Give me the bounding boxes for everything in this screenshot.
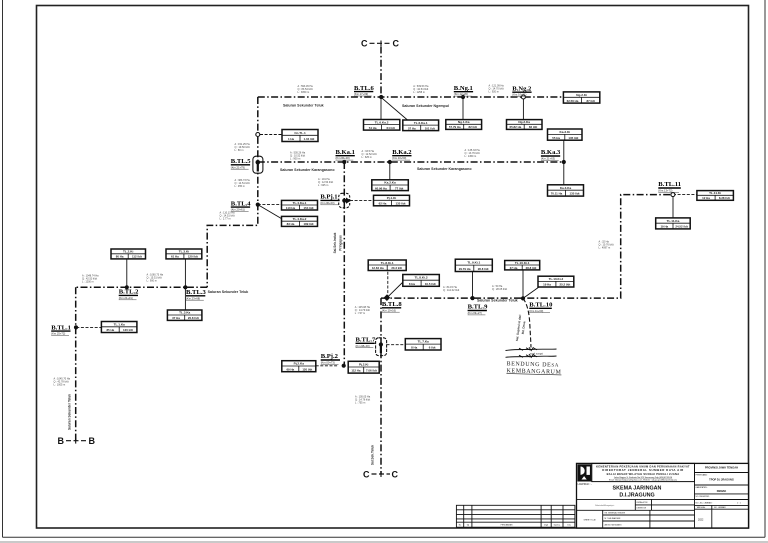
- svg-text:Ka.3.Ka: Ka.3.Ka: [560, 186, 572, 190]
- label B.Ka.3: [541, 149, 561, 160]
- label B.Pj.1: [320, 194, 339, 205]
- wire saluran sekunder Karangasono (line 2): [258, 161, 564, 163]
- svg-text:112 Ha: 112 Ha: [351, 369, 361, 373]
- svg-text:NO. JDL. LEMBAR :: NO. JDL. LEMBAR :: [696, 501, 714, 504]
- wire saluran Teluk vertical to C-C bottom: [380, 298, 382, 474]
- node B.Ka.2: [388, 160, 392, 164]
- svg-text:61 Ha: 61 Ha: [171, 255, 179, 259]
- annotation branch B.TL.5-B.TL.4: [235, 179, 251, 188]
- box tl11ka: [656, 218, 691, 229]
- svg-text:Q : 28.05 lt/dt: Q : 28.05 lt/dt: [492, 288, 507, 291]
- svg-text:Saluran Sekunder Karangasono: Saluran Sekunder Karangasono: [280, 168, 335, 172]
- svg-text:B.Pj.1: B.Pj.1: [320, 194, 337, 201]
- connector B.Pj.1 to Pj.1.Ki: [350, 200, 374, 202]
- wire saluran sekunder Teluk (line 3): [76, 286, 208, 288]
- svg-text:37 Ha: 37 Ha: [172, 316, 180, 320]
- svg-text:Pj.2.Ka: Pj.2.Ka: [294, 362, 305, 366]
- node Cn.TL.1: [256, 133, 260, 137]
- connector B.Ka.3 up to Ka.3.Ki: [563, 140, 565, 162]
- svg-text:B.TL.7: B.TL.7: [356, 337, 376, 344]
- svg-text:8 Ha: 8 Ha: [409, 282, 415, 286]
- svg-text:B.Ka.1: B.Ka.1: [336, 149, 355, 156]
- connector B.TL.4 diagonal to TL.4.Ka.2: [258, 205, 283, 220]
- svg-text:TL.6.Ka.2: TL.6.Ka.2: [375, 120, 389, 124]
- svg-text:85 Ha: 85 Ha: [106, 328, 114, 332]
- svg-text:TL.1.Ka: TL.1.Ka: [114, 323, 125, 327]
- svg-text:L : 2.77 m: L : 2.77 m: [220, 218, 231, 221]
- svg-text:101 l/dt: 101 l/dt: [425, 126, 435, 130]
- label B.TL.1: [51, 324, 71, 335]
- svg-text:TL.4.Ka.1: TL.4.Ka.1: [293, 201, 307, 205]
- node B.TL.3: [183, 285, 187, 289]
- svg-text:L : 80 m: L : 80 m: [235, 149, 244, 152]
- svg-text:M.T KALIMANTAN: M.T KALIMANTAN: [605, 517, 621, 520]
- svg-text:L : 900 m: L : 900 m: [290, 158, 300, 161]
- annotation line1 B.Ng.1-B.Ng.2: [489, 85, 505, 94]
- svg-text:20.8 l/dt: 20.8 l/dt: [188, 316, 199, 320]
- svg-text:Digb: Digb: [544, 524, 548, 526]
- svg-text:L : 4097 m: L : 4097 m: [599, 247, 611, 250]
- svg-text:Dstj: Dstj: [567, 523, 571, 526]
- node B.TL.7: [379, 342, 383, 346]
- svg-text:L : 900 m: L : 900 m: [147, 279, 157, 282]
- node B.TL.11: [671, 193, 675, 197]
- svg-text:8 Ha: 8 Ha: [411, 346, 417, 350]
- svg-text:(Km.10+61): (Km.10+61): [512, 93, 526, 97]
- svg-text:TL.11.Ki: TL.11.Ki: [709, 191, 721, 195]
- svg-text:(Km.10+50): (Km.10+50): [392, 156, 406, 160]
- svg-text:8.28 l/dt: 8.28 l/dt: [719, 196, 730, 200]
- box tl3ki: [166, 249, 202, 259]
- connector B.Pj.2 to Pj.2.Ka: [316, 365, 339, 367]
- svg-text:2022: 2022: [698, 519, 704, 522]
- svg-text:(Km.00+73): (Km.00+73): [321, 361, 335, 365]
- svg-text:55 Ha: 55 Ha: [552, 136, 560, 140]
- box tl4ka2: [282, 216, 318, 226]
- title block main frame: [577, 463, 749, 528]
- svg-text:57 Ha: 57 Ha: [408, 126, 416, 130]
- box tl6ka2: [364, 120, 400, 131]
- box tl6ka1: [403, 120, 439, 131]
- label B.TL.11: [658, 181, 681, 192]
- label rotated suplesi dari Bd. Desa: [515, 314, 526, 341]
- svg-text:TL.2.Ki: TL.2.Ki: [123, 250, 133, 254]
- svg-text:Cn.TL.1: Cn.TL.1: [294, 131, 306, 135]
- svg-text:Ng.2.Ki: Ng.2.Ki: [576, 93, 587, 97]
- box tl3ka: [167, 310, 202, 320]
- svg-text:135 l/dt: 135 l/dt: [396, 202, 406, 206]
- box pj2ki: [348, 361, 379, 373]
- title block signature rows: [577, 499, 749, 510]
- svg-text:Saluran Sekunder Teluk: Saluran Sekunder Teluk: [68, 394, 72, 430]
- svg-text:anak sungai: anak sungai: [530, 352, 543, 355]
- box tl10ki2: [538, 276, 574, 287]
- svg-text:TL.11.Ka: TL.11.Ka: [667, 219, 680, 223]
- annotation below B.TL.8: [355, 306, 371, 315]
- box tl1ka: [101, 322, 136, 333]
- wire saluran sekunder Teluk (line 4, B.TL.8 to corner): [381, 195, 673, 299]
- svg-text:NO. LEMBAR: NO. LEMBAR: [714, 506, 726, 509]
- svg-text:83 Ha: 83 Ha: [287, 222, 295, 226]
- box ng2ki: [563, 92, 599, 103]
- section marker C-C top: [361, 39, 400, 49]
- svg-text:B.TL.3: B.TL.3: [186, 289, 206, 296]
- label B.TL.3: [186, 289, 206, 300]
- svg-text:DIREKTORAT JENDERAL SUMBER DAY: DIREKTORAT JENDERAL SUMBER DAYA AIR: [602, 468, 684, 472]
- svg-text:7.06 l/dt: 7.06 l/dt: [366, 369, 377, 373]
- connector B.TL.2 up to TL.2.Ki: [126, 259, 128, 287]
- box tl9ki1: [455, 259, 492, 271]
- node B.Pj.2: [342, 364, 346, 368]
- svg-text:B.TL.10: B.TL.10: [529, 302, 553, 309]
- svg-text:TL.6.Ka.1: TL.6.Ka.1: [414, 121, 428, 125]
- svg-text:L : 1005 m: L : 1005 m: [54, 383, 66, 386]
- svg-text:L : 1450 m: L : 1450 m: [465, 155, 477, 158]
- svg-text:PA. GENERAL TENDER: PA. GENERAL TENDER: [605, 511, 626, 514]
- connector B.Ka.3 down to Ka.3.Ka: [563, 162, 565, 185]
- svg-text:BALAI BESAR WILAYAH SUNGAI PEM: BALAI BESAR WILAYAH SUNGAI PEMALI JUANA: [607, 472, 680, 476]
- svg-text:B.TL.4: B.TL.4: [231, 200, 251, 207]
- node B.Ka.3: [562, 160, 566, 164]
- svg-text:C: C: [361, 39, 368, 49]
- label B.TL.10: [529, 302, 553, 313]
- svg-text:Sal.Sek.Induk: Sal.Sek.Induk: [333, 232, 337, 253]
- svg-text:Pj.1.Ki: Pj.1.Ki: [387, 196, 397, 200]
- svg-text:65.82 Ha: 65.82 Ha: [510, 125, 522, 129]
- box cntl1: [282, 130, 318, 142]
- connector B.TL.10 diagonal to TL.10.Ki.2: [523, 287, 540, 299]
- annotation below B.TL.4: [220, 212, 236, 221]
- svg-text:L : 625 m: L : 625 m: [318, 184, 328, 187]
- box tl8ki1: [368, 260, 406, 271]
- svg-text:PEKERJAAN :: PEKERJAAN :: [696, 473, 709, 476]
- svg-text:82 l/dt: 82 l/dt: [529, 125, 537, 129]
- box tl4ka1: [282, 200, 318, 210]
- connector B.TL.9 up to TL.9.Ki.1: [472, 272, 474, 299]
- wire saluran sekunder Teluk / Ngempul (line 1): [258, 96, 564, 98]
- title block right column: [695, 463, 749, 528]
- connector B.TL.11 to TL.11.Ki: [673, 194, 697, 196]
- svg-text:B: B: [58, 436, 65, 446]
- svg-text:110 Ha: 110 Ha: [286, 206, 296, 210]
- node B.Ng.1: [461, 95, 465, 99]
- connector B.TL.8 up to TL.8.Ki.1: [387, 271, 389, 298]
- svg-text:(Km.00+00): (Km.00+00): [336, 156, 350, 160]
- title block ministry header text: [592, 463, 695, 481]
- connector B.Ka.2 down to Ka.2.Ka: [389, 162, 391, 180]
- svg-text:12 Ha: 12 Ha: [702, 196, 710, 200]
- label B.TL.9: [468, 304, 488, 315]
- svg-text:Ng.1.Ka: Ng.1.Ka: [458, 120, 470, 124]
- wire section C-C top vertical: [380, 47, 382, 98]
- svg-text:B.TL.6: B.TL.6: [354, 85, 374, 92]
- svg-text:29.79 Ha: 29.79 Ha: [459, 267, 471, 271]
- box tl8ki2: [403, 275, 440, 287]
- svg-text:(Km.11+60): (Km.11+60): [529, 309, 543, 313]
- annotation left of B.TL.11 drop: [599, 241, 614, 250]
- svg-text:(Km.10+16): (Km.10+16): [382, 308, 396, 312]
- svg-text:62.56 Ha: 62.56 Ha: [567, 99, 579, 103]
- svg-text:Saluran Sekunder Ngempul: Saluran Sekunder Ngempul: [402, 104, 449, 108]
- svg-text:C: C: [363, 470, 370, 480]
- annotation line2 B.Ka.1-B.Ka.2: [362, 150, 377, 159]
- svg-text:(Km.21+63): (Km.21+63): [541, 157, 555, 161]
- annotation line4 B.TL.9-B.TL.10: [492, 285, 507, 291]
- svg-text:L : 747 m: L : 747 m: [355, 312, 365, 315]
- annotation below B.TL.1: [54, 377, 71, 386]
- svg-text:KABUPATEN :: KABUPATEN :: [696, 486, 709, 489]
- svg-text:Pj.2.Ki: Pj.2.Ki: [359, 363, 369, 367]
- box ka3ka: [548, 185, 584, 196]
- node B.Ng.2: [521, 95, 525, 99]
- node B.TL.6: [379, 95, 383, 99]
- svg-text:135 l/dt: 135 l/dt: [568, 136, 578, 140]
- svg-text:B.TL.9: B.TL.9: [468, 304, 488, 311]
- svg-text:No: No: [459, 524, 461, 526]
- annotation line1 B.TL.6-B.Ng.1: [413, 85, 429, 94]
- svg-text:D.I.JRAGUNG: D.I.JRAGUNG: [619, 493, 654, 499]
- svg-text:PERUBAHAN: PERUBAHAN: [501, 523, 513, 526]
- svg-text:112 l/dt: 112 l/dt: [132, 255, 142, 259]
- annotation line4 B.TL.8-B.TL.9: [443, 286, 460, 292]
- svg-text:54 Ha: 54 Ha: [369, 126, 377, 130]
- svg-text:TL.8.Ki.2: TL.8.Ki.2: [415, 276, 428, 280]
- svg-text:80 Ha: 80 Ha: [116, 255, 124, 259]
- svg-text:NO. REGISTER :: NO. REGISTER :: [696, 496, 711, 498]
- svg-text:(Km.23+68): (Km.23+68): [186, 296, 200, 300]
- svg-text:L : 920 m: L : 920 m: [489, 91, 499, 94]
- svg-text:(Km.12+20): (Km.12+20): [454, 92, 468, 96]
- label B.Ng.1: [454, 85, 473, 96]
- annotation above B.Pj.1: [318, 178, 333, 187]
- connector B.TL.10 up to TL.10.Ki.1: [522, 270, 524, 299]
- svg-text:Sal.Sek.Teluk: Sal.Sek.Teluk: [371, 445, 375, 466]
- svg-text:70.11 Ha: 70.11 Ha: [551, 192, 563, 196]
- wire branch from line1 corner down to B.TL.5 / B.TL.4: [207, 97, 258, 287]
- title block logo (Kementerian PU): [577, 464, 591, 481]
- svg-text:(Km.25+72): (Km.25+72): [51, 332, 65, 336]
- svg-text:19 Ha: 19 Ha: [660, 225, 668, 229]
- svg-text:TANGGAL: TANGGAL: [697, 506, 706, 509]
- connector B.TL.7 to TL.7.Ka: [387, 344, 406, 346]
- connector B.Ng.2 to Ng.2.Ka: [522, 97, 524, 120]
- svg-text:TL.4.Ka.2: TL.4.Ka.2: [293, 217, 307, 221]
- annotation line2 left of B.Ka.1: [290, 152, 306, 161]
- svg-text:Ka.3.Ki: Ka.3.Ki: [560, 130, 571, 134]
- node B.Ka.1: [342, 160, 346, 164]
- svg-text:B: B: [89, 436, 96, 446]
- svg-text:TL.3.Ka: TL.3.Ka: [179, 311, 190, 315]
- svg-text:B.Ng.1: B.Ng.1: [454, 85, 473, 92]
- svg-text:(Km.21+79): (Km.21+79): [231, 165, 245, 169]
- wire suplesi from B.TL.10 down to bendung: [523, 298, 531, 347]
- svg-text:L : 625 m: L : 625 m: [362, 156, 372, 159]
- svg-text:154 l/dt: 154 l/dt: [304, 206, 314, 210]
- svg-text:Saluran Sekunder Karangasono: Saluran Sekunder Karangasono: [417, 167, 472, 171]
- svg-text:PROVINSI JAWA TENGAH: PROVINSI JAWA TENGAH: [705, 466, 738, 470]
- box pj1ki: [374, 195, 410, 206]
- svg-text:C: C: [392, 470, 399, 480]
- svg-text:10.5 l/dt: 10.5 l/dt: [425, 282, 436, 286]
- node B.TL.5: [255, 160, 260, 165]
- connector B.TL.1 to TL.1.Ka: [76, 326, 101, 328]
- svg-text:TPOP D.I JRAGUNG: TPOP D.I JRAGUNG: [709, 478, 734, 482]
- svg-text:Diketahui/Menyetujui :: Diketahui/Menyetujui :: [595, 504, 615, 507]
- svg-text:28.8 l/dt: 28.8 l/dt: [526, 266, 537, 270]
- label BENDUNG DESA KEMBANGARUM: [506, 361, 561, 375]
- svg-text:(Km.00+00): (Km.00+00): [320, 201, 334, 205]
- wire saluran induk Pringapus (B.Ka.1 down to B.Pj.2): [343, 162, 345, 366]
- svg-text:87 l/dt: 87 l/dt: [587, 99, 595, 103]
- section marker B-B left: [58, 436, 96, 446]
- connector B.TL.3 up to TL.3.Ki: [184, 259, 186, 287]
- svg-text:B.TL.1: B.TL.1: [51, 324, 71, 331]
- connector Cn.TL.1 circle to its box: [260, 134, 282, 136]
- svg-text:1 : 1: 1 : 1: [737, 502, 741, 504]
- connector B.TL.4 to TL.4.Ka.1: [258, 204, 282, 206]
- svg-text:SKEMA JARINGAN: SKEMA JARINGAN: [613, 485, 662, 491]
- node B.TL.2: [125, 285, 129, 289]
- svg-text:ANGGOTA SIDANG: ANGGOTA SIDANG: [605, 523, 623, 526]
- svg-text:60.96 Ha: 60.96 Ha: [375, 186, 387, 190]
- svg-text:Q : 112.02 lt/dt: Q : 112.02 lt/dt: [443, 289, 460, 292]
- svg-text:12.84 Ha: 12.84 Ha: [372, 266, 384, 270]
- svg-text:LAMPIRAN : -: LAMPIRAN : -: [578, 483, 593, 486]
- svg-text:(Km.24+31): (Km.24+31): [119, 296, 133, 300]
- svg-text:120 l/dt: 120 l/dt: [123, 328, 133, 332]
- annotation line2 left of B.Ka.3: [465, 149, 481, 158]
- annotation line1 left of B.TL.6: [298, 85, 314, 94]
- svg-text:Saluran Sekunder Teluk: Saluran Sekunder Teluk: [283, 103, 324, 107]
- svg-text:57.79 Ha: 57.79 Ha: [449, 125, 461, 129]
- svg-text:B.Pj.2: B.Pj.2: [321, 353, 339, 360]
- svg-text:(Km.08+00): (Km.08+00): [356, 344, 370, 348]
- box ka3ki: [548, 129, 583, 140]
- svg-text:L : 755 m: L : 755 m: [355, 401, 365, 404]
- annotation below B.Pj.2: [355, 395, 371, 404]
- wire to B.TL.1 and B-B section: [75, 287, 77, 441]
- label B.TL.4: [231, 200, 251, 211]
- box tl10ki1: [505, 261, 540, 270]
- svg-text:120 l/dt: 120 l/dt: [302, 367, 312, 371]
- svg-text:B.Ka.2: B.Ka.2: [392, 149, 412, 156]
- svg-text:L : 1258 m: L : 1258 m: [413, 91, 425, 94]
- label B.TL.8: [382, 301, 402, 312]
- node B.TL.9: [470, 296, 474, 300]
- svg-text:B.Ng.2: B.Ng.2: [512, 85, 532, 92]
- title block drawing title: [613, 485, 662, 498]
- svg-text:B.TL.2: B.TL.2: [119, 289, 139, 296]
- box ng2ka: [507, 120, 543, 130]
- box tl11ki: [697, 191, 734, 201]
- svg-text:SHEET S.dll: SHEET S.dll: [583, 519, 596, 521]
- gate symbol B.TL.7: [376, 338, 387, 356]
- svg-text:Ng.2.Ka: Ng.2.Ka: [518, 120, 530, 124]
- svg-text:64 l/dt: 64 l/dt: [387, 126, 395, 130]
- annotation line3 left of B.TL.3: [147, 273, 164, 282]
- svg-text:B.TL.5: B.TL.5: [231, 158, 251, 165]
- svg-text:Pringapus: Pringapus: [339, 235, 343, 251]
- svg-text:24.52 l/dt: 24.52 l/dt: [675, 225, 687, 229]
- svg-text:DEMAK: DEMAK: [717, 489, 727, 493]
- svg-text:Ka.2.Ka: Ka.2.Ka: [384, 181, 396, 185]
- box tl2ki: [111, 249, 146, 259]
- label B.TL.7: [356, 337, 376, 348]
- svg-text:Saluran Sekunder Teluk: Saluran Sekunder Teluk: [208, 290, 249, 294]
- label B.TL.5: [231, 158, 251, 169]
- label B.Pj.2: [321, 353, 340, 364]
- svg-text:L : 1200 m: L : 1200 m: [82, 281, 94, 284]
- connector B.TL.6 to TL.6.Ka.2: [380, 97, 382, 120]
- svg-text:TL.9.Ki.1: TL.9.Ki.1: [467, 261, 480, 265]
- svg-text:1 Ha: 1 Ha: [288, 137, 294, 141]
- svg-text:120 l/dt: 120 l/dt: [188, 255, 198, 259]
- svg-text:L : 3050 m: L : 3050 m: [298, 91, 310, 94]
- node B.TL.4: [256, 203, 260, 207]
- connector B.TL.11 down to TL.11.Ka: [672, 195, 674, 218]
- svg-text:82 l/dt: 82 l/dt: [469, 125, 477, 129]
- svg-text:TL.10.Ki.1: TL.10.Ki.1: [515, 261, 530, 265]
- section marker C-C bottom: [363, 470, 399, 480]
- node B.Pj.1: [342, 199, 346, 203]
- svg-text:TL.8.Ki.1: TL.8.Ki.1: [381, 261, 394, 265]
- svg-text:B.TL.8: B.TL.8: [382, 301, 402, 308]
- svg-text:135 l/dt: 135 l/dt: [570, 192, 580, 196]
- svg-text:19 Ha: 19 Ha: [543, 283, 551, 287]
- node B.TL.1: [74, 325, 78, 329]
- label B.TL.6: [354, 85, 374, 96]
- node B.TL.8 (diamond): [384, 294, 391, 301]
- svg-text:KEPALA TIM: KEPALA TIM: [637, 501, 648, 504]
- label B.TL.2: [119, 289, 139, 300]
- node B.TL.10: [521, 296, 525, 300]
- svg-text:Diprksa: Diprksa: [554, 523, 561, 526]
- svg-text:TL.7.Ka: TL.7.Ka: [418, 340, 429, 344]
- connector B.TL.6 diagonal to TL.6.Ka.1: [381, 98, 407, 121]
- svg-text:Email : bbwspemalijuana@yahoo.: Email : bbwspemalijuana@yahoo.co.id - We…: [609, 478, 678, 481]
- svg-text:1.04 l/dt: 1.04 l/dt: [304, 137, 315, 141]
- svg-text:(Km.17+09): (Km.17+09): [354, 92, 368, 96]
- gate symbol B.Pj.1: [339, 193, 351, 208]
- label B.Ka.2: [392, 149, 412, 160]
- svg-text:28.8 l/dt: 28.8 l/dt: [478, 267, 489, 271]
- annotation branch above B.TL.5: [235, 143, 251, 152]
- label B.Ng.2: [512, 85, 532, 96]
- box ng1ka: [446, 120, 482, 130]
- svg-text:B.TL.11: B.TL.11: [658, 181, 681, 188]
- bendung desa Kembangarum (weir): [506, 347, 557, 357]
- svg-text:(Km.09+27): (Km.09+27): [468, 311, 482, 315]
- box pj2ka: [282, 361, 316, 372]
- svg-text:B.Ka.3: B.Ka.3: [541, 149, 561, 156]
- svg-text:77 l/dt: 77 l/dt: [395, 186, 403, 190]
- annotation line3 left of B.TL.2: [82, 275, 99, 284]
- svg-text:(Km.13+72): (Km.13+72): [658, 189, 672, 193]
- box tl7ka: [405, 339, 441, 350]
- connector B.Ng.1 to Ng.1.Ka: [462, 97, 464, 120]
- svg-text:62 Ha: 62 Ha: [379, 202, 387, 206]
- svg-text:DIREKTUR: DIREKTUR: [637, 507, 647, 509]
- connector B.TL.8 diagonal to TL.8.Ki.2: [387, 281, 405, 298]
- connector B.TL.3 down to TL.3.Ka: [184, 287, 186, 310]
- label B.Ka.1: [336, 149, 355, 160]
- svg-text:TL.3.Ki: TL.3.Ki: [179, 250, 189, 254]
- svg-text:69 Ha: 69 Ha: [286, 367, 294, 371]
- svg-text:L : 455 m: L : 455 m: [235, 185, 245, 188]
- gate symbol B.TL.5: [253, 156, 263, 173]
- svg-text:Saluran Sekunder Teluk: Saluran Sekunder Teluk: [477, 299, 518, 303]
- box ka2ka: [372, 180, 409, 191]
